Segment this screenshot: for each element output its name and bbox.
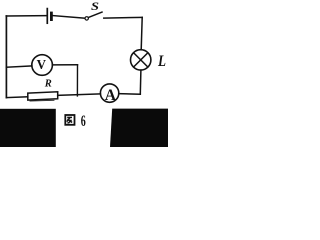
- wire bottom-right corner to ammeter: [119, 93, 141, 96]
- ammeter A1 circle: [100, 84, 118, 102]
- lamp L cross stroke 2: [134, 53, 148, 67]
- svg-text:A: A: [105, 87, 117, 104]
- wire top-left horizontal: [6, 15, 46, 17]
- wire bottom-left to resistor: [6, 96, 27, 99]
- wire right rail down to lamp: [141, 17, 142, 49]
- svg-text:S: S: [91, 1, 99, 13]
- switch S lever: [89, 12, 103, 17]
- resistor bottom shadow artifact: [30, 99, 54, 102]
- svg-text:6: 6: [81, 113, 86, 130]
- lamp L circle: [131, 50, 151, 70]
- wire voltmeter to junction: [52, 64, 77, 66]
- svg-text:V: V: [37, 58, 46, 73]
- black mask rect bottom-right: [110, 109, 168, 147]
- caption character tu (figure): [65, 115, 74, 125]
- wire voltmeter branch vertical junction: [76, 65, 78, 96]
- svg-text:L: L: [157, 53, 166, 70]
- wire battery to switch: [53, 16, 85, 19]
- lamp L cross stroke 1: [134, 53, 148, 67]
- wire switch to top-right corner: [104, 16, 142, 19]
- resistor R box: [28, 92, 58, 100]
- switch S pivot circle: [85, 17, 88, 20]
- voltmeter V1 circle: [32, 55, 53, 76]
- battery B1 short thick plate: [50, 13, 53, 20]
- svg-text:R: R: [44, 79, 52, 90]
- wire lamp to bottom-right corner: [139, 70, 142, 94]
- wire left rail vertical: [5, 16, 7, 98]
- wire left rail to voltmeter: [6, 66, 32, 67]
- black mask rect bottom-left: [0, 109, 56, 147]
- battery B1 long plate: [46, 9, 48, 24]
- wire ammeter to resistor: [58, 94, 101, 96]
